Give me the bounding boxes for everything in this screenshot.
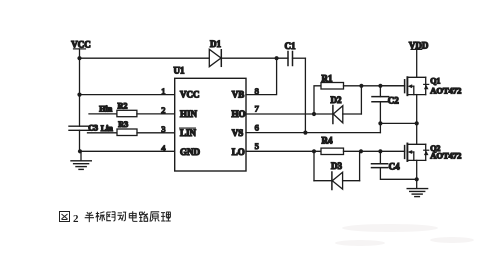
wire R2 to U1 pin2 [137,113,175,115]
svg-text:D1: D1 [210,39,221,49]
node C4 top junction [378,149,382,153]
svg-text:VCC: VCC [180,90,200,100]
node rail mid junction [415,121,419,125]
svg-text:C4: C4 [389,161,400,171]
wire R4 to Q2 gate [344,150,405,152]
transistor Q2 [405,144,462,162]
op-amp U1 (gate driver IC) [174,65,247,171]
wire left rail pin1 down to C3 [79,95,81,127]
wire LO row from U1 to Q2 gate [246,150,321,152]
resistor R3 [117,120,137,135]
diode D3 [314,161,360,190]
wire D3 left vertical [313,151,315,180]
node ground junction [78,149,82,153]
wire HO row from U1 to R1 branch [246,113,314,115]
node HO branch junction [312,112,316,116]
caption 图 2 半桥驱动电路原理 [60,212,80,225]
svg-text:7: 7 [255,104,259,114]
wire left rail vertical VCC down to pin1 [79,58,81,94]
capacitor C3 [69,124,98,133]
capacitor C2 [372,86,399,133]
faint watermark [335,224,474,246]
wire VCC rail top horizontal to D1 [80,57,210,59]
node C1/VS junction [303,131,307,135]
wire VS link to rail [380,122,416,124]
wire HO branch up to R1 row [314,86,321,114]
svg-text:Lin: Lin [101,124,114,133]
电 [129,211,137,221]
VCC power flag [71,40,91,59]
node C2 top junction [378,84,382,88]
svg-text:6: 6 [255,122,259,132]
resistor R4 [321,135,344,154]
ground (right, below Q2) [407,189,427,197]
capacitor C1 [285,41,296,66]
svg-text:D3: D3 [331,161,342,171]
svg-text:HO: HO [232,109,246,119]
svg-text:3: 3 [161,124,165,134]
wire C1 right to corner [293,57,306,59]
wire VS row from U1 to C2 leg [246,132,380,134]
wire C3 down to ground node [79,130,81,151]
node VB/C1 junction [275,56,279,60]
wire D3 right vertical [359,151,361,180]
ground (left) [71,151,91,169]
路 [139,212,148,222]
svg-text:R3: R3 [118,120,128,129]
svg-text:5: 5 [255,141,259,151]
svg-text:R4: R4 [322,135,333,145]
svg-text:GND: GND [180,147,201,157]
svg-text:HIN: HIN [180,109,198,119]
svg-text:C2: C2 [388,96,399,106]
桥 [96,212,105,222]
svg-text:Q1: Q1 [430,76,440,85]
半 [85,212,94,222]
wire GND row to U1 pin4 [80,150,175,152]
node pin1 junction [77,93,81,97]
svg-text:2: 2 [73,213,79,225]
wire VB vertical from top line down to pin8 [246,58,277,94]
wire rail Q1 source to Q2 drain [416,95,418,145]
svg-text:VCC: VCC [71,40,91,50]
node ground rail junction [415,177,419,181]
svg-text:4: 4 [161,143,166,153]
svg-text:VDD: VDD [409,40,429,50]
svg-text:C3: C3 [88,124,98,133]
transistor Q1 [380,76,461,95]
svg-text:AOT472: AOT472 [430,85,461,95]
resistor R1 [321,73,344,89]
原 [150,212,159,222]
wire Lin input to R3 [88,132,118,134]
svg-text:R2: R2 [118,101,128,110]
wire Hin input to R2 [89,113,117,115]
node C2 bottom junction [378,121,382,125]
node VCC-top junction [77,56,81,60]
diode D1 [209,39,221,67]
wire R1 to gate row [344,85,405,87]
VDD power flag [409,40,429,77]
diode D2 [314,95,361,124]
node LO branch junction [312,149,316,153]
svg-text:U1: U1 [174,65,185,75]
node D3 right junction [359,149,363,153]
svg-text:VS: VS [232,128,244,138]
理 [161,212,171,221]
node R1/D2 right junction [359,84,363,88]
svg-text:2: 2 [161,105,165,115]
svg-text:1: 1 [161,86,165,96]
wire C1 down to VS row [304,58,306,132]
wire D1 to C1 node [221,57,288,59]
svg-text:VB: VB [232,90,245,100]
resistor R2 [117,101,137,116]
svg-text:Hin: Hin [99,105,112,114]
wire Q2 source down to ground [416,160,418,188]
svg-text:LO: LO [232,147,245,157]
svg-text:D2: D2 [331,95,342,105]
wire D2 right vertical [360,86,362,114]
动 [117,212,126,221]
驱 [107,212,116,221]
svg-text:C1: C1 [285,41,296,51]
svg-text:LIN: LIN [180,128,197,138]
svg-text:AOT472: AOT472 [430,151,461,161]
capacitor C4 [372,151,417,179]
wire R3 to U1 pin3 [137,132,175,134]
wire pin1 row to U1 [80,94,175,96]
